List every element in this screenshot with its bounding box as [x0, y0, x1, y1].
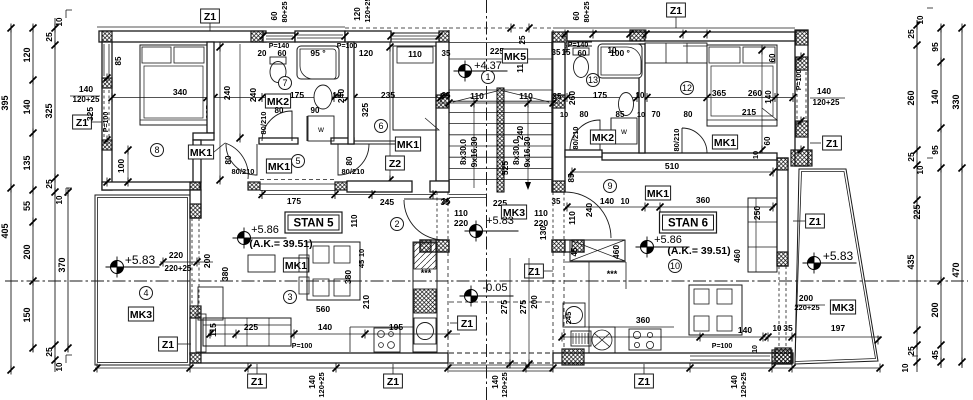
svg-text:13: 13	[588, 75, 598, 85]
entry dashed line	[449, 301, 553, 303]
svg-text:7: 7	[282, 78, 287, 88]
svg-text:245: 245	[380, 197, 394, 207]
svg-text:220: 220	[534, 218, 548, 228]
svg-text:10: 10	[773, 324, 782, 333]
section line vertical (center axis)	[486, 0, 488, 400]
svg-text:MK1: MK1	[268, 161, 290, 173]
svg-text:***: ***	[421, 268, 432, 278]
svg-text:Z1: Z1	[162, 339, 174, 351]
room9 MK1 label	[645, 186, 670, 200]
svg-text:140: 140	[930, 89, 940, 104]
svg-text:80+25: 80+25	[280, 1, 289, 22]
svg-text:175: 175	[290, 90, 304, 100]
svg-text:70: 70	[652, 110, 661, 119]
room12 door arc	[682, 128, 707, 153]
svg-text:25: 25	[518, 35, 527, 44]
svg-text:8x30.0: 8x30.0	[511, 139, 521, 165]
svg-text:w: w	[620, 127, 627, 136]
svg-text:Z1: Z1	[461, 318, 473, 330]
svg-text:210: 210	[361, 295, 371, 309]
svg-text:8x30.0: 8x30.0	[458, 139, 468, 165]
svg-text:60: 60	[278, 49, 287, 58]
top wall x345-391	[345, 31, 391, 42]
top face line left	[97, 26, 345, 28]
svg-text:120: 120	[22, 47, 32, 62]
svg-text:140: 140	[318, 322, 332, 332]
bath7 toilet	[270, 62, 286, 83]
stairwell right wall x553 full	[552, 42, 565, 192]
bath7 door arc	[262, 111, 292, 141]
window room6 top	[391, 32, 439, 34]
svg-text:80: 80	[345, 156, 354, 165]
svg-text:6: 6	[378, 121, 383, 131]
bath13 door arc	[570, 120, 600, 150]
room9 510 dim	[570, 171, 775, 173]
svg-text:10: 10	[916, 15, 925, 24]
svg-text:405: 405	[0, 223, 10, 238]
svg-text:435: 435	[906, 254, 916, 269]
room12 Z1 label	[823, 136, 842, 150]
window bottom right unit	[690, 355, 770, 357]
bath13 niche wall	[610, 118, 612, 144]
wall closet room6	[354, 140, 412, 142]
svg-text:120+25: 120+25	[739, 372, 748, 397]
room3 number	[284, 291, 297, 304]
svg-text:25: 25	[44, 32, 54, 42]
svg-text:45: 45	[570, 247, 579, 256]
svg-text:P=100: P=100	[292, 343, 313, 350]
wall junction ticks left wall	[104, 74, 111, 83]
wall WC niche	[306, 116, 308, 141]
svg-text:***: ***	[607, 269, 618, 279]
entry 275 dim lines	[509, 258, 511, 366]
top wall bath section	[263, 33, 295, 42]
living chair left	[248, 255, 275, 272]
svg-text:Z1: Z1	[670, 5, 682, 17]
left outer wall	[102, 42, 112, 190]
svg-text:25: 25	[44, 347, 54, 357]
svg-text:9: 9	[607, 181, 612, 191]
svg-text:95 °: 95 °	[310, 48, 326, 58]
svg-text:35: 35	[552, 197, 561, 206]
interior dim vline x240 room8	[239, 44, 241, 140]
svg-text:140: 140	[817, 86, 831, 96]
stairwell left wall x436 full	[436, 42, 449, 192]
STAN6 kitchen counter	[565, 261, 589, 263]
svg-text:110: 110	[454, 208, 468, 218]
svg-text:10: 10	[621, 197, 630, 206]
svg-text:225: 225	[244, 322, 258, 332]
svg-text:12: 12	[682, 83, 692, 93]
svg-text:460: 460	[733, 249, 742, 263]
wall room8|bath7	[207, 42, 214, 133]
svg-text:150: 150	[22, 307, 32, 322]
svg-text:325: 325	[85, 107, 95, 121]
bath7 shower	[297, 46, 339, 79]
pier left wall y140	[102, 140, 112, 150]
bath13 toilet	[574, 57, 589, 78]
STAN6 kitchen sink	[563, 303, 585, 327]
svg-text:10: 10	[901, 363, 910, 372]
svg-text:2: 2	[394, 219, 399, 229]
interior dim chain horizontal left unit y97	[112, 97, 441, 99]
window bath13 top	[568, 41, 592, 43]
svg-text:10: 10	[637, 110, 645, 119]
svg-text:P=100: P=100	[712, 343, 733, 350]
svg-text:P=100: P=100	[337, 43, 358, 50]
interior dim vline x220 room8	[219, 44, 221, 182]
room 4 number	[140, 287, 153, 300]
STAN5 elevation +5.86	[233, 228, 287, 249]
STAN 6 label	[660, 212, 717, 233]
svg-text:10: 10	[751, 151, 760, 159]
svg-text:20: 20	[258, 49, 267, 58]
svg-text:195: 195	[389, 322, 403, 332]
svg-text:80+25: 80+25	[582, 1, 591, 22]
room8 number	[151, 144, 164, 157]
svg-text:200: 200	[930, 302, 940, 317]
corridor MK3 label	[501, 205, 526, 219]
room6 bed	[393, 46, 436, 130]
svg-text:325: 325	[44, 103, 54, 118]
room8 bottom wall	[102, 182, 200, 190]
svg-text:P=140: P=140	[568, 42, 589, 49]
Z1 label left wall	[73, 115, 92, 129]
room12 bed	[707, 45, 777, 126]
svg-text:560: 560	[316, 304, 330, 314]
svg-text:P=100: P=100	[103, 112, 110, 133]
svg-text:+5.83: +5.83	[486, 215, 514, 227]
top dashed line over stair	[345, 27, 449, 29]
svg-text:10: 10	[55, 17, 64, 26]
stair direction lines	[473, 102, 475, 188]
svg-text:110: 110	[534, 208, 548, 218]
bath7 washer	[308, 116, 334, 141]
svg-text:10: 10	[916, 165, 925, 174]
svg-text:340: 340	[173, 87, 187, 97]
pier top wall x553	[552, 32, 567, 52]
stair bottom wall	[430, 181, 449, 192]
svg-text:60: 60	[270, 11, 279, 20]
svg-text:MK5: MK5	[504, 51, 526, 63]
window living left dashed	[191, 218, 193, 306]
room12 number	[681, 82, 694, 95]
svg-text:80/210: 80/210	[672, 129, 681, 152]
room6 Z2 label	[386, 156, 405, 170]
svg-text:197: 197	[831, 323, 845, 333]
svg-text:175: 175	[593, 90, 607, 100]
svg-text:240: 240	[584, 203, 594, 217]
STAN6 table	[689, 285, 742, 335]
Z1 bottom labels	[248, 374, 267, 388]
top wall left section	[99, 31, 266, 42]
wall stub left of stair corridor	[420, 240, 436, 252]
stair center stringer	[497, 88, 504, 192]
window right wall dashed	[778, 266, 780, 348]
svg-text:60: 60	[578, 49, 587, 58]
entry Z1 label	[458, 316, 477, 330]
room8 dim line 100	[127, 150, 129, 182]
svg-text:3: 3	[287, 292, 292, 302]
section line horizontal	[5, 280, 968, 282]
svg-text:+5.83: +5.83	[125, 253, 156, 267]
top wall right section	[567, 32, 795, 41]
bath13 shower	[598, 44, 642, 78]
kitchen stove left unit	[414, 289, 436, 313]
corridor elevation +5.83	[465, 221, 519, 242]
svg-text:395: 395	[0, 95, 10, 110]
svg-text:120: 120	[353, 7, 362, 21]
right terrace elevation +5.83	[803, 253, 857, 274]
bath13 washer	[611, 118, 637, 144]
porch step lines	[449, 364, 553, 366]
pier top-left corner	[102, 31, 112, 42]
svg-text:220: 220	[169, 250, 183, 260]
svg-text:10: 10	[636, 91, 645, 100]
svg-text:90: 90	[311, 106, 320, 115]
room5 bottom piers	[248, 182, 260, 190]
window room12 top	[683, 42, 707, 44]
right terrace MK3 label	[830, 300, 855, 314]
svg-text:140: 140	[22, 99, 32, 114]
svg-text:Z1: Z1	[826, 138, 838, 150]
svg-text:MK1: MK1	[647, 188, 669, 200]
bath7 MK2 label	[265, 94, 290, 108]
svg-text:MK1: MK1	[190, 147, 212, 159]
svg-text:110: 110	[350, 214, 359, 227]
room 4 dims 220/220+25	[160, 261, 213, 263]
svg-text:135: 135	[22, 155, 32, 170]
svg-text:120+25: 120+25	[500, 372, 509, 397]
svg-text:120+25: 120+25	[363, 0, 372, 23]
svg-text:360: 360	[636, 315, 650, 325]
svg-text:220+25: 220+25	[794, 303, 819, 312]
STAN 5 label	[285, 212, 342, 233]
Z1 top left	[201, 9, 220, 23]
svg-text:60: 60	[763, 136, 772, 145]
bottom dim line	[95, 367, 880, 369]
bath13 washbasin	[619, 93, 634, 116]
room12 MK1 label	[712, 135, 737, 149]
STAN6 wardrobe	[570, 240, 625, 261]
room9 right wall x777	[777, 158, 788, 266]
STAN6 door arc below stairs	[565, 192, 611, 238]
svg-text:60: 60	[572, 11, 581, 20]
svg-text:25: 25	[906, 152, 916, 162]
room12 closet top	[645, 43, 707, 63]
svg-text:330: 330	[951, 94, 961, 109]
room6 number	[375, 120, 388, 133]
svg-text:+5.83: +5.83	[823, 249, 854, 263]
svg-text:225: 225	[912, 204, 922, 219]
svg-text:25: 25	[906, 29, 916, 39]
svg-text:240: 240	[222, 86, 232, 100]
svg-text:MK3: MK3	[130, 309, 152, 321]
svg-text:140: 140	[738, 325, 752, 335]
svg-text:200: 200	[202, 254, 212, 268]
stair top landing elevation +4.37	[454, 61, 508, 82]
svg-text:5: 5	[295, 156, 300, 166]
svg-text:95: 95	[930, 145, 940, 155]
svg-text:Z1: Z1	[251, 376, 263, 388]
svg-text:25: 25	[44, 179, 54, 189]
svg-text:140: 140	[730, 375, 739, 389]
room8 MK1 label	[188, 145, 213, 159]
kitchen burners left unit	[374, 328, 400, 352]
svg-text:365: 365	[712, 88, 726, 98]
svg-text:Z1: Z1	[528, 266, 540, 278]
entry elevation -0.05	[460, 286, 514, 307]
svg-text:80: 80	[580, 110, 589, 119]
wall junction ticks right wall	[798, 53, 805, 62]
svg-text:45: 45	[357, 260, 366, 268]
stair landing lines	[449, 58, 553, 60]
pier top wall x251	[251, 31, 263, 42]
svg-text:35: 35	[442, 197, 451, 206]
svg-text:370: 370	[57, 257, 67, 272]
svg-text:35: 35	[442, 49, 451, 58]
wall stub right of stair corridor	[565, 240, 584, 252]
right dim chain 2	[940, 25, 942, 368]
svg-text:(A.K.= 39.51): (A.K.= 39.51)	[667, 245, 730, 257]
svg-text:120+25: 120+25	[813, 98, 840, 107]
svg-text:10: 10	[752, 345, 759, 353]
window right wall room12 dashed	[796, 72, 798, 121]
svg-text:360: 360	[696, 195, 710, 205]
svg-text:MK3: MK3	[832, 302, 854, 314]
room6 MK1 label	[395, 137, 420, 151]
STAN6 kitchen grill	[571, 331, 591, 346]
room5 bottom opening lines	[260, 179, 335, 181]
svg-text:55: 55	[22, 201, 32, 211]
right dim chain 1	[916, 20, 918, 372]
wall bath13 left	[565, 150, 602, 157]
left dim chain 2	[32, 25, 34, 352]
corridor threshold lines	[449, 194, 487, 196]
svg-text:260: 260	[567, 91, 577, 105]
svg-text:110: 110	[567, 211, 577, 225]
room 4 MK3 label	[128, 307, 153, 321]
svg-text:STAN 5: STAN 5	[293, 217, 334, 229]
svg-text:200: 200	[799, 293, 813, 303]
svg-text:250: 250	[752, 206, 762, 220]
right terrace Z1 label	[806, 214, 825, 228]
STAN6 sofa	[748, 198, 777, 272]
svg-text:Z1: Z1	[387, 376, 399, 388]
pier top-right corner	[796, 31, 808, 45]
room2 number	[391, 218, 404, 231]
svg-text:(A.K.= 39.51): (A.K.= 39.51)	[249, 238, 312, 250]
room9 number	[604, 180, 617, 193]
wall bath13 right x639	[639, 44, 645, 153]
svg-text:470: 470	[951, 262, 961, 277]
svg-text:35: 35	[552, 48, 561, 57]
stair bay side lines	[448, 30, 450, 192]
svg-text:80/210: 80/210	[571, 127, 580, 150]
right dim chain 3	[961, 28, 963, 368]
room5 MK1 label	[266, 159, 291, 173]
room 4 elevation +5.83	[106, 257, 160, 278]
room8 door arc	[214, 143, 225, 152]
svg-text:Z1: Z1	[638, 376, 650, 388]
pier top wall x630	[630, 30, 645, 41]
svg-text:380: 380	[343, 270, 353, 284]
svg-text:35: 35	[442, 91, 451, 100]
svg-text:115: 115	[208, 323, 218, 337]
pier right wall y57	[796, 57, 808, 70]
svg-text:MK1: MK1	[714, 137, 736, 149]
pier top wall x439	[439, 31, 449, 42]
top face line right	[553, 27, 795, 29]
pier left wall y78	[102, 78, 112, 88]
svg-text:220+25: 220+25	[165, 264, 192, 273]
kitchen sink left unit	[414, 318, 436, 344]
svg-text:STAN 6: STAN 6	[668, 217, 708, 229]
right terrace outline	[795, 169, 878, 364]
living sofa	[203, 318, 291, 346]
svg-text:+5.86: +5.86	[251, 224, 279, 236]
STAN6 elevation +5.86	[636, 237, 690, 258]
svg-text:275: 275	[518, 300, 528, 314]
svg-text:10: 10	[357, 249, 366, 257]
svg-text:140: 140	[600, 196, 614, 206]
wall bath7|room6 x348	[348, 42, 354, 144]
svg-text:45: 45	[930, 350, 940, 360]
svg-text:35: 35	[553, 92, 562, 101]
svg-text:w: w	[317, 125, 324, 134]
bottom wall right unit	[553, 353, 793, 363]
kitchen counter line	[350, 326, 413, 328]
svg-text:460: 460	[611, 245, 621, 259]
svg-text:140: 140	[491, 375, 500, 389]
svg-text:10: 10	[55, 195, 64, 204]
svg-text:100: 100	[116, 159, 126, 173]
svg-text:85: 85	[616, 110, 625, 119]
pier right wall corner y150	[791, 150, 812, 166]
svg-text:175: 175	[287, 196, 301, 206]
room 4 terrace outline	[95, 195, 190, 365]
svg-text:110: 110	[519, 91, 533, 101]
bath bottom wall segment a	[259, 138, 298, 144]
stair dim row	[440, 102, 562, 104]
svg-text:240: 240	[515, 126, 525, 140]
bottom wall left unit	[190, 353, 448, 363]
svg-text:120+25: 120+25	[317, 372, 326, 397]
interior dim chain horizontal right unit y97	[567, 97, 793, 99]
svg-text:P=140: P=140	[269, 43, 290, 50]
corridor Z1 label	[525, 264, 544, 278]
svg-text:140: 140	[764, 90, 773, 104]
left dim chain 4 (370)	[67, 190, 69, 352]
pier right wall y121	[796, 121, 808, 137]
svg-text:Z1: Z1	[809, 216, 821, 228]
pier room8 bottom right	[190, 182, 201, 190]
svg-text:140: 140	[308, 375, 317, 389]
svg-text:10: 10	[560, 110, 568, 119]
svg-text:120: 120	[359, 48, 373, 58]
top wall window 95 section	[295, 31, 345, 42]
STAN6 bottom dims	[560, 336, 765, 338]
svg-text:4: 4	[143, 288, 148, 298]
svg-text:25: 25	[906, 346, 916, 356]
window left wall P=100 dashed	[103, 90, 105, 138]
interior dim vline x390 room6	[389, 44, 391, 182]
bath13 number	[587, 74, 600, 87]
living door arc	[404, 198, 444, 200]
svg-text:Z2: Z2	[389, 158, 401, 170]
stair treads	[449, 100, 553, 102]
svg-text:10: 10	[670, 261, 680, 271]
